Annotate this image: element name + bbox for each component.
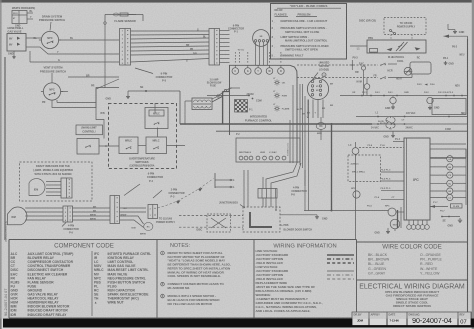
svg-text:JDM: JDM xyxy=(357,319,364,323)
svg-text:90-24007-04: 90-24007-04 xyxy=(412,318,452,325)
svg-text:7-13-96: 7-13-96 xyxy=(390,319,400,323)
svg-text:07: 07 xyxy=(460,320,466,326)
